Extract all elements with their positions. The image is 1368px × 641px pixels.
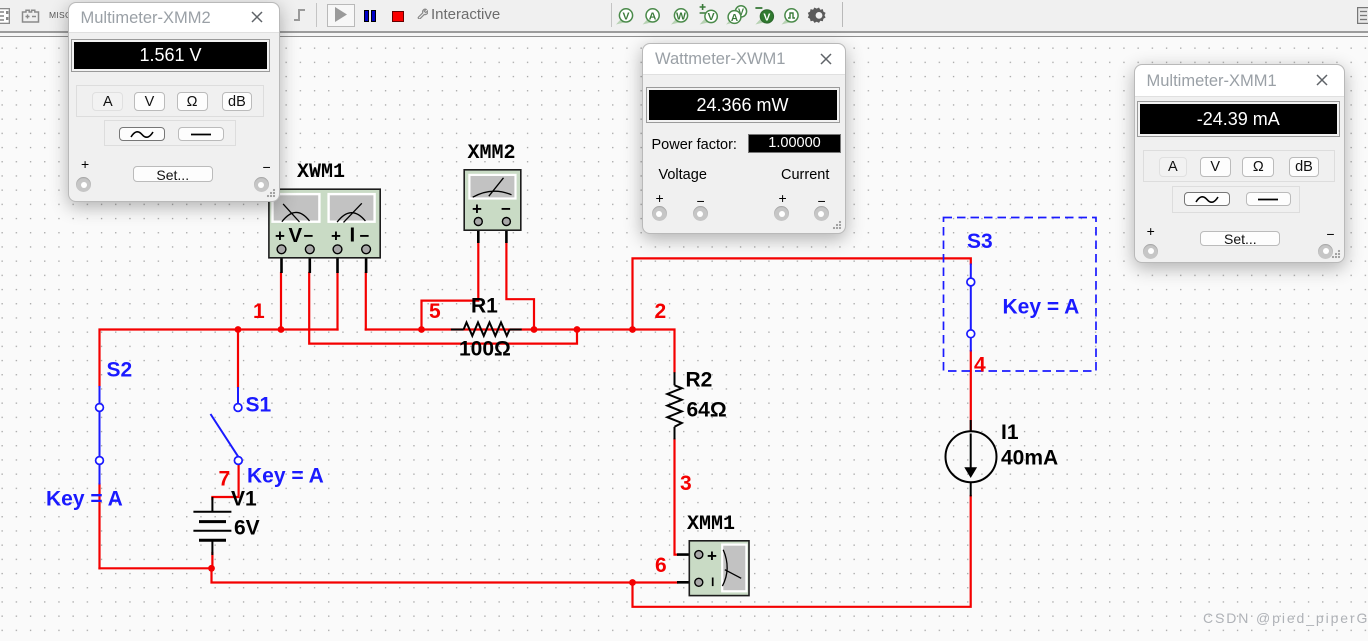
svg-text:+: +	[275, 227, 285, 246]
wire battery V1 bottom to bottom rail	[211, 553, 213, 568]
svg-text:100Ω: 100Ω	[459, 338, 511, 361]
junction node 2	[629, 326, 636, 333]
junction XWM1 V+	[278, 326, 285, 333]
svg-text:−: −	[501, 200, 511, 219]
svg-text:Key = A: Key = A	[247, 464, 324, 487]
svg-text:−: −	[304, 227, 314, 246]
probe icons	[614, 4, 850, 27]
wire XWM1 I+ to rail	[336, 273, 338, 330]
multimeter instrument XMM2	[464, 170, 521, 243]
switch S3 (closed)	[970, 264, 972, 352]
svg-text:+: +	[331, 227, 341, 246]
svg-text:R1: R1	[471, 295, 498, 318]
junction XWM1 V- tap	[574, 326, 581, 333]
svg-text:V: V	[289, 224, 303, 247]
junction node 5	[418, 326, 425, 333]
svg-text:6: 6	[655, 554, 667, 577]
svg-text:V: V	[708, 11, 715, 23]
wire XWM1 V- down and right to node past R1	[309, 273, 577, 344]
svg-text:2: 2	[655, 300, 667, 323]
wire bottom right rail node6 to I1 bottom	[633, 496, 971, 607]
wire bottom left rail S2 to battery	[100, 567, 212, 569]
wire node 2 up and across to S3	[633, 258, 971, 329]
svg-text:+: +	[472, 200, 482, 219]
dialog Multimeter-XMM1	[1134, 64, 1345, 263]
svg-text:6V: 6V	[234, 517, 260, 540]
junction node 6	[629, 579, 636, 586]
svg-text:64Ω: 64Ω	[687, 399, 727, 422]
wire main top: wattmeter I- to node 2 corner	[366, 330, 675, 373]
svg-text:3: 3	[680, 472, 692, 495]
current source I1	[946, 420, 997, 496]
dialog Multimeter-XMM2	[68, 2, 280, 202]
svg-text:I1: I1	[1001, 421, 1019, 444]
resistor R1	[451, 322, 522, 335]
svg-text:W: W	[676, 10, 686, 22]
wire main top: node1 run from S2 top corner to wattmeter I+	[100, 330, 338, 387]
svg-text:40mA: 40mA	[1001, 447, 1058, 470]
svg-text:S2: S2	[107, 359, 133, 382]
wire S1 branch from node 1	[237, 330, 239, 388]
svg-text:R2: R2	[686, 369, 713, 392]
svg-text:A: A	[649, 10, 657, 22]
wattmeter instrument XWM1	[269, 189, 380, 273]
wire XWM1 I- to rail	[365, 273, 367, 330]
wire XWM1 V+ to node 1 rail	[280, 273, 282, 330]
svg-text:−: −	[360, 227, 370, 246]
svg-text:V: V	[622, 10, 629, 22]
svg-text:V: V	[763, 11, 770, 23]
svg-text:S1: S1	[246, 394, 272, 417]
wire S2 bottom to rail	[98, 484, 100, 568]
junction node 1	[235, 326, 242, 333]
wire XMM2 plus to node 5	[422, 243, 479, 330]
resistor R2	[667, 372, 682, 439]
wire node 6 to XMM1 minus lead	[633, 581, 678, 583]
wire bottom mid rail battery to node 6	[212, 568, 633, 582]
selection box around S3	[944, 218, 1097, 372]
svg-text:S3: S3	[967, 230, 993, 253]
svg-text:XMM2: XMM2	[468, 142, 516, 165]
wire XMM2 minus to R1 right node	[506, 243, 534, 330]
switch S2 (closed)	[99, 386, 101, 485]
svg-text:XMM1: XMM1	[687, 513, 735, 536]
wire R2 bottom to XMM1 plus lead (node 3)	[675, 439, 678, 554]
wire S3 bottom to I1 top (node 4)	[970, 351, 972, 430]
top toolbar	[0, 0, 1368, 33]
svg-text:V1: V1	[231, 488, 257, 511]
multimeter instrument XMM1	[677, 541, 749, 596]
battery V1	[193, 497, 231, 555]
svg-text:5: 5	[429, 300, 441, 323]
junction R1 right	[531, 326, 538, 333]
svg-text:+: +	[707, 547, 717, 566]
watermark	[1203, 610, 1368, 626]
svg-text:XWM1: XWM1	[297, 161, 345, 184]
svg-text:Key = A: Key = A	[46, 487, 123, 510]
wire S1 bottom to battery V1 top	[212, 464, 238, 499]
svg-text:A: A	[731, 13, 738, 24]
svg-text:4: 4	[974, 354, 986, 377]
junction battery bottom	[208, 565, 215, 572]
svg-text:I: I	[350, 224, 356, 247]
dialog Wattmeter-XWM1	[642, 43, 846, 234]
svg-text:Key = A: Key = A	[1003, 296, 1080, 319]
switch S1 (open)	[211, 387, 239, 457]
svg-text:1: 1	[253, 300, 265, 323]
svg-text:7: 7	[219, 468, 231, 491]
